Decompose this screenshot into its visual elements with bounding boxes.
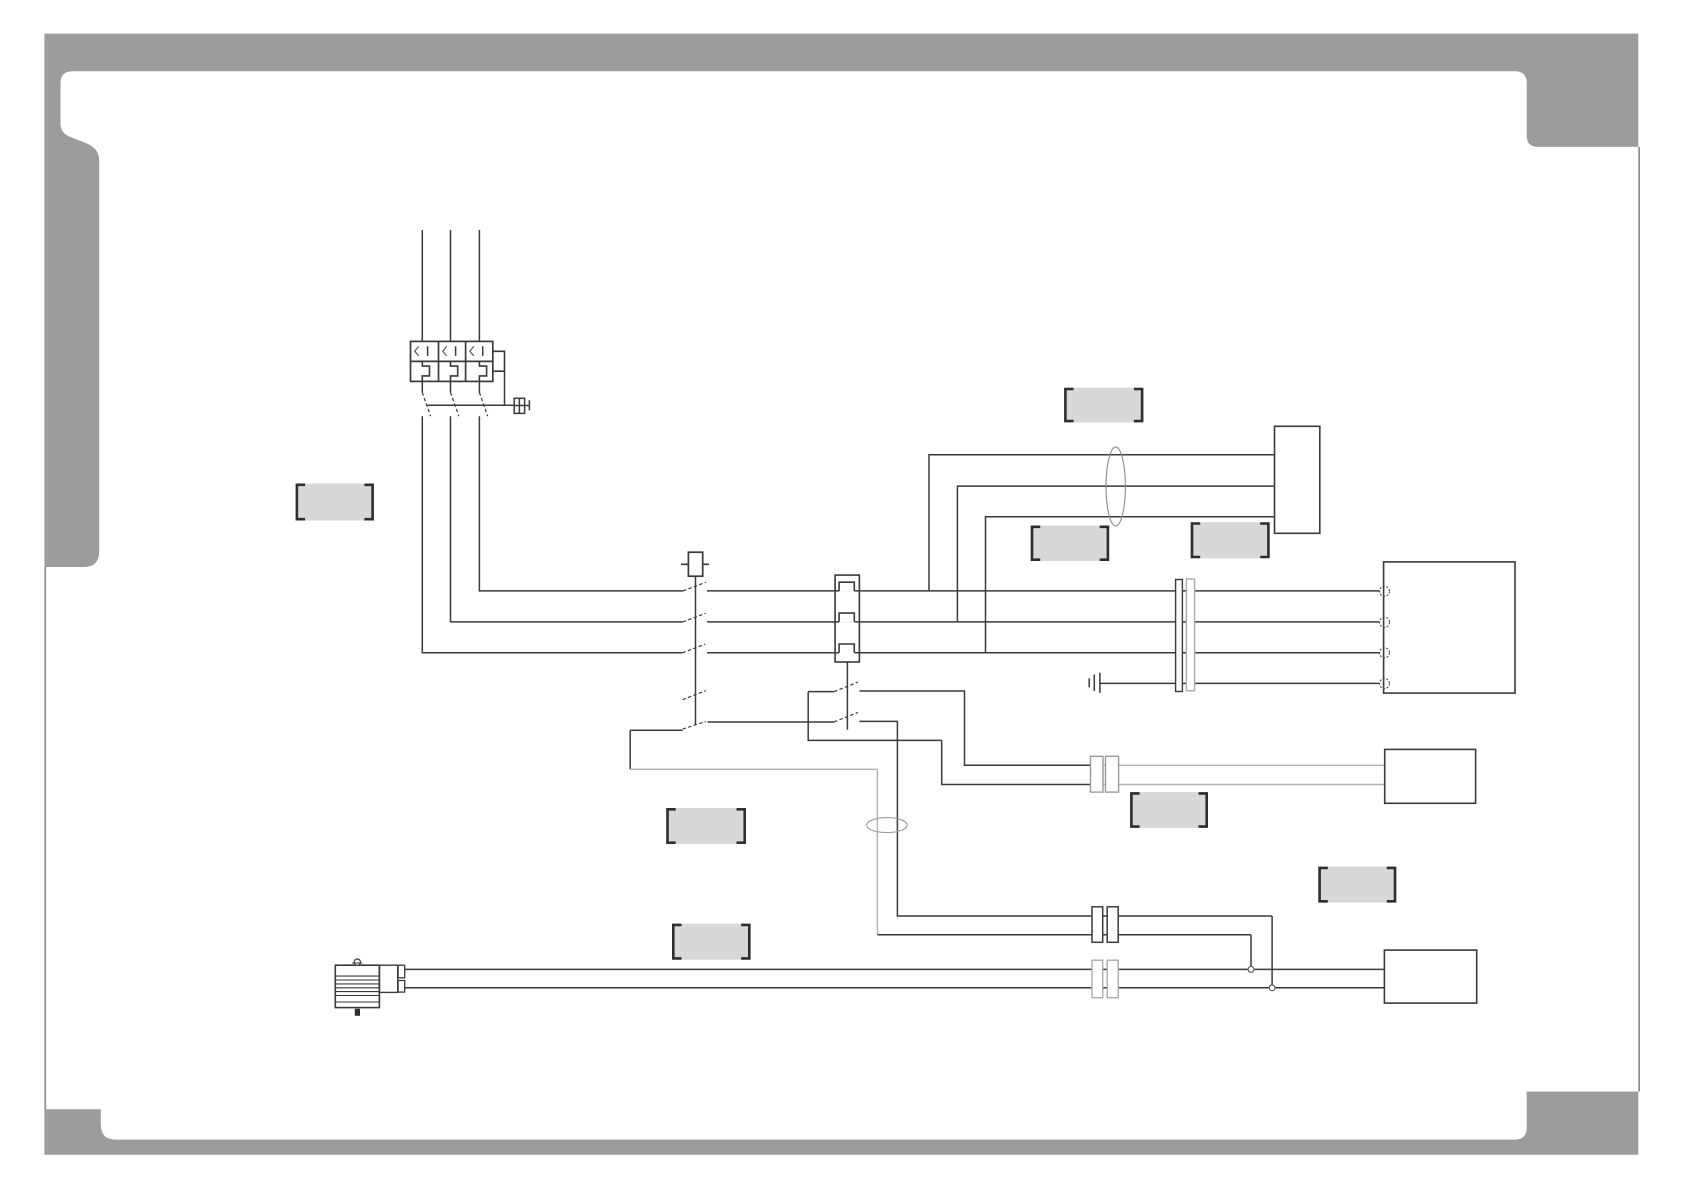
page frame right rule: [1638, 147, 1640, 1092]
wire door switch box outline: [808, 692, 942, 741]
bottom sub box: [1384, 950, 1476, 1003]
wire contact1 light run to midbox: [1096, 764, 1385, 766]
wire supply line 2: [450, 230, 452, 341]
bottom switch blade dashed: [683, 722, 706, 730]
door switch contact 2 blade dashed: [834, 712, 858, 722]
contactor block: [835, 575, 859, 662]
wire left drop to loop: [629, 730, 631, 769]
cable loop ellipse upper: [1106, 447, 1125, 526]
EMI filter bar light: [1186, 579, 1194, 691]
page frame left rule: [44, 567, 46, 1109]
label box L3: [1031, 526, 1110, 562]
wire light vertical through loop: [876, 769, 878, 934]
switch blade phase B dashed: [683, 613, 706, 622]
page frame bottom: [44, 1092, 1638, 1155]
wire doorlock 3: [986, 517, 1275, 653]
ground symbol: [1089, 673, 1100, 693]
label box L8: [1318, 867, 1396, 903]
breaker pole 2 release symbol: [443, 346, 456, 356]
wire crosslink down to motor wire 2: [1271, 916, 1273, 988]
wire ground to filter: [1100, 682, 1380, 684]
door lock box: [1275, 426, 1320, 533]
terminal circle 1: [1380, 586, 1390, 596]
wire doorlock 2: [957, 486, 1274, 622]
page frame top: [44, 34, 1638, 567]
wire phase A to control box: [707, 590, 1380, 592]
trip linkage horizontal: [427, 404, 514, 406]
circuit breaker CB 3-pole body: [411, 341, 493, 381]
breaker pole 2 trip blade dashed: [451, 393, 459, 417]
motor foot black: [355, 1009, 360, 1016]
wire phase B to control box: [707, 621, 1380, 623]
connector CN2 pair: [1092, 960, 1118, 998]
breaker pole 2 thermal overload: [451, 361, 458, 381]
wire crosslink down to motor wire 1: [1250, 935, 1252, 970]
motor screw head: [351, 959, 365, 965]
breaker pole 2 lower stub: [450, 381, 452, 392]
breaker pole 3 trip blade dashed: [479, 393, 487, 417]
wire contact1 right run: [859, 691, 1096, 765]
wire phase C to control box: [707, 652, 1380, 654]
wire supply line 3: [478, 230, 480, 341]
wire aux contact drop: [504, 371, 506, 405]
breaker pole 1 release symbol: [415, 346, 428, 356]
label box L4: [1191, 522, 1270, 558]
wire phase C from pole 1: [422, 416, 682, 653]
wire doorlock 1: [929, 455, 1275, 591]
connector CN3 pair: [1091, 756, 1119, 792]
breaker pole 1 thermal overload: [422, 361, 429, 381]
wire motor 2: [405, 987, 1385, 989]
wire phase A from pole 3: [479, 416, 683, 591]
breaker pole 1 trip blade dashed: [422, 393, 430, 417]
wire contact2 right run: [859, 721, 1272, 916]
contactor linkage vertical: [846, 662, 848, 730]
label box L6: [666, 808, 746, 844]
wire light horizontal to loop: [630, 768, 877, 770]
wire door switch stub left: [808, 691, 834, 693]
cable loop ellipse lower: [867, 818, 908, 833]
label box L5: [1130, 792, 1208, 828]
terminal block symbol: [514, 398, 529, 413]
wire box bottom light run to midbox: [1096, 784, 1385, 786]
mid sub box: [1385, 749, 1476, 803]
switch blade phase C dashed: [682, 644, 705, 653]
breaker pole 1 lower stub: [421, 381, 423, 392]
connector CN1 pair: [1092, 907, 1118, 943]
door switch contact 1 blade dashed: [834, 682, 858, 692]
junction node 2: [1269, 985, 1275, 991]
terminal circle 3: [1380, 648, 1390, 658]
breaker pole 3 thermal overload: [479, 361, 486, 381]
wire box bottom drop run: [942, 740, 1096, 784]
wire fuse linkage drop: [695, 576, 697, 725]
breaker auxiliary contact box: [493, 351, 505, 371]
label box L7: [672, 924, 751, 960]
EMI filter bar dark: [1176, 580, 1183, 692]
linkage blade dashed mid: [683, 691, 706, 700]
label box L1: [296, 484, 374, 521]
wire supply line 1: [421, 230, 423, 341]
label box L2: [1064, 388, 1143, 423]
junction node 1: [1248, 967, 1254, 973]
wire bottom switch left: [630, 729, 682, 731]
terminal circle 2: [1380, 617, 1390, 627]
wire loop line right run: [877, 934, 1251, 936]
fuse F1: [681, 552, 709, 576]
breaker pole 3 lower stub: [478, 381, 480, 392]
terminal circle 4: [1380, 679, 1390, 689]
breaker pole 3 release symbol: [470, 346, 483, 356]
wire phase B from pole 2: [451, 416, 683, 622]
motor M: [335, 965, 404, 1007]
main control box: [1384, 562, 1515, 693]
wire motor 1: [405, 968, 1385, 970]
wire bottom switch right: [707, 721, 834, 723]
switch blade phase A dashed: [683, 582, 706, 591]
